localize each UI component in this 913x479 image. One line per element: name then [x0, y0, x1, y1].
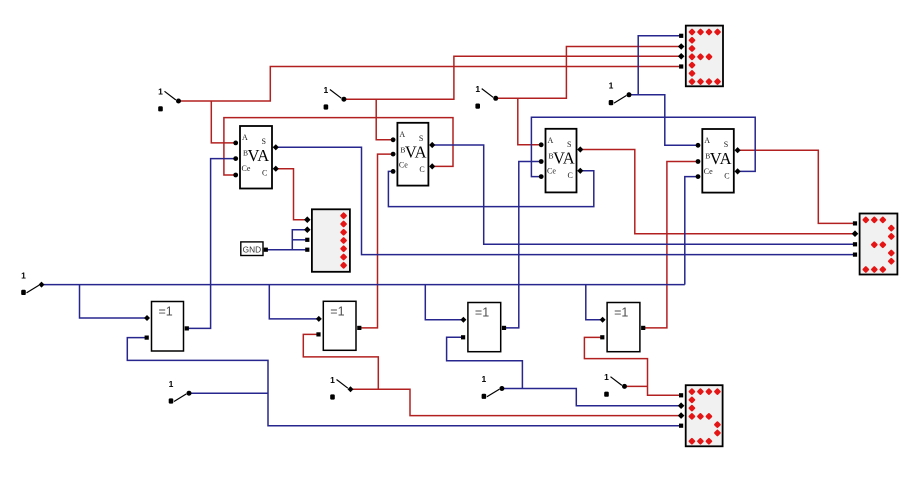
VA4 pin B: [696, 159, 701, 164]
D4 pin 1: [304, 216, 311, 223]
svg-text:1: 1: [330, 375, 335, 385]
ground symbol GND: [241, 242, 263, 256]
wire branch: SUB bus to VA4 carry-in Ce: [685, 177, 698, 285]
wire branch: GND to display D4 pin 2: [292, 230, 307, 250]
full adder VA2: [397, 123, 428, 186]
VA3 pin A: [539, 142, 544, 147]
D3 pin 1: [679, 393, 683, 397]
D2 pin 3: [853, 242, 857, 246]
wire net A3: switch S1 to display D1 pin 4: [179, 67, 682, 102]
svg-text:=1: =1: [475, 306, 489, 320]
wire net B2: switch S7 to display D3 pin 3: [351, 389, 682, 415]
GND pin: [264, 248, 268, 252]
VA1 pin S: [273, 144, 279, 150]
toggle switch S2 (set to 1): [324, 85, 347, 110]
D4 pin 3: [305, 238, 309, 242]
wire net S0sum: VA4 sum output to display D2 pin 1: [737, 150, 856, 223]
wire net B0: XOR X4 input 2 to display D3 pin 1: [584, 337, 681, 395]
wire branch: SUB bus to XOR X4 input 1: [586, 285, 603, 320]
svg-text:1: 1: [158, 87, 163, 97]
D2 pin 1: [853, 221, 857, 225]
X1 input 1: [144, 315, 150, 321]
svg-text:1: 1: [609, 81, 614, 91]
wire net B2: XOR X2 input 2 feed: [303, 334, 378, 389]
svg-text:C: C: [724, 171, 729, 180]
wire net carry-out: VA1 carry C to display D4 pin 1: [276, 169, 308, 220]
X1 input 2: [145, 336, 149, 340]
X4 input 2: [600, 335, 604, 339]
VA1 pin A: [233, 141, 238, 146]
wire net A0: switch S4 to display D1 pin 1: [629, 36, 681, 95]
X2 output: [357, 326, 361, 330]
svg-text:=1: =1: [330, 304, 344, 318]
wire: XOR X4 output to VA4 input B: [644, 162, 698, 328]
toggle switch S5 (set to 0): [21, 270, 44, 295]
D1 pin 1: [679, 34, 683, 38]
wire stub: switch S9 to net B0: [625, 385, 648, 387]
VA1 pin B: [233, 156, 238, 161]
wire net A2: switch S2 to display D1 pin 3: [344, 56, 682, 99]
wire net B1: switch S8 to display D3 pin 2: [502, 389, 682, 406]
svg-text:Ce: Ce: [704, 167, 713, 176]
svg-text:S: S: [724, 140, 728, 149]
X4 input 1: [600, 317, 606, 323]
svg-text:A: A: [242, 133, 248, 142]
wire net: VA3 carry C to VA2 carry-in Ce: [388, 171, 593, 207]
wire net SUB bus: switch S5 mode line: [42, 284, 685, 286]
toggle switch S9 (set to 1): [604, 372, 627, 397]
VA3 pin Ce: [539, 174, 544, 179]
wire: XOR X2 output to VA2 input B: [359, 154, 393, 328]
D3 pin 3: [678, 412, 685, 419]
dot-matrix display D2 (shows 3): [860, 214, 898, 275]
D4 pin 4: [305, 248, 309, 252]
svg-text:1: 1: [475, 84, 480, 94]
svg-text:C: C: [419, 165, 424, 174]
wire branch: SUB bus to XOR X3 input 1: [425, 285, 464, 320]
VA4 pin Ce: [696, 174, 701, 179]
XOR gate X4 (=1): [607, 303, 640, 352]
VA3 pin C: [577, 168, 583, 174]
full adder VA1: [240, 126, 272, 189]
dot-matrix display D4 (shows 1 (carry)): [312, 209, 350, 271]
svg-text:S: S: [419, 134, 423, 143]
svg-text:Ce: Ce: [547, 167, 556, 176]
D2 pin 2: [852, 230, 859, 237]
svg-text:VA: VA: [248, 146, 270, 165]
X1 output: [185, 326, 189, 330]
VA4 pin A: [696, 143, 701, 148]
XOR gate X2 (=1): [323, 301, 356, 350]
svg-text:=1: =1: [159, 305, 173, 319]
D2 pin 4: [853, 253, 857, 257]
wire net: VA2 carry C to VA1 carry-in Ce: [224, 118, 453, 175]
VA2 pin Ce: [391, 169, 396, 174]
D3 pin 2: [678, 402, 685, 409]
wire net B3: XOR X1 input 2 to display D3 pin 4: [127, 338, 681, 426]
svg-text:=1: =1: [614, 306, 628, 320]
X3 input 1: [460, 317, 466, 323]
toggle switch S3 (set to 1): [475, 84, 498, 109]
X3 input 2: [461, 335, 465, 339]
X4 output: [641, 326, 645, 330]
wire net sum3: VA1 sum output to display D2 pin 4: [276, 147, 856, 254]
svg-text:Ce: Ce: [399, 161, 408, 170]
wire net: VA4 carry C to VA3 carry-in Ce: [531, 117, 755, 176]
svg-text:1: 1: [21, 270, 26, 280]
XOR gate X1 (=1): [152, 302, 184, 352]
svg-text:1: 1: [169, 379, 174, 389]
VA2 pin S: [429, 142, 435, 148]
svg-text:C: C: [262, 168, 267, 177]
toggle switch S4 (set to 0): [609, 81, 632, 106]
svg-text:Ce: Ce: [242, 164, 251, 173]
svg-text:1: 1: [604, 372, 609, 382]
D1 pin 3: [678, 53, 685, 60]
full adder VA4: [702, 129, 734, 193]
D3 pin 4: [679, 424, 683, 428]
svg-text:A: A: [704, 136, 710, 145]
wire branch: GND to display D4 pin 3: [292, 239, 307, 241]
VA4 pin C: [735, 168, 741, 174]
X2 input 1: [316, 316, 322, 322]
VA3 pin B: [539, 159, 544, 164]
wire: XOR X3 output to VA3 input B: [505, 162, 542, 328]
VA3 pin S: [577, 146, 583, 152]
toggle switch S8 (set to 0): [482, 374, 505, 399]
svg-text:VA: VA: [405, 143, 427, 162]
wire net sum2: VA2 sum output to display D2 pin 3: [433, 145, 856, 244]
wire net S1sum: VA3 sum output to display D2 pin 2: [581, 150, 856, 234]
wire branch: switch S1 to VA1 input A: [211, 101, 235, 143]
svg-text:A: A: [399, 130, 405, 139]
svg-text:VA: VA: [553, 149, 575, 168]
D4 pin 2: [304, 226, 311, 233]
VA2 pin A: [391, 137, 396, 142]
svg-text:GND: GND: [243, 244, 261, 254]
wire branch: switch S3 to VA3 input A: [518, 98, 542, 145]
wire branch: SUB bus to XOR X1 input 1: [80, 285, 147, 318]
svg-text:1: 1: [324, 85, 329, 95]
wire: GND to display D4 pin 4: [266, 249, 308, 251]
wire: XOR X1 output to VA1 input B: [186, 159, 235, 329]
dot-matrix display D1 (shows hex E): [686, 26, 723, 87]
wire branch: switch S4 to VA4 input A: [638, 95, 698, 146]
dot-matrix display D3 (shows 5): [686, 385, 723, 446]
X3 output: [502, 326, 506, 330]
VA2 pin C: [429, 163, 435, 169]
VA1 pin C: [273, 166, 279, 172]
VA1 pin Ce: [233, 173, 238, 178]
wire stub: switch S6 to net B3: [189, 392, 268, 394]
toggle switch S1 (set to 1): [158, 87, 181, 112]
D1 pin 4: [679, 64, 683, 68]
X2 input 2: [316, 332, 320, 336]
XOR gate X3 (=1): [468, 303, 501, 352]
toggle switch S6 (set to 0): [169, 379, 192, 404]
svg-text:VA: VA: [710, 149, 732, 168]
wire net B1: XOR X3 input 2 feed: [447, 337, 523, 388]
svg-text:S: S: [567, 140, 571, 149]
D1 pin 2: [678, 43, 685, 50]
VA4 pin S: [735, 147, 741, 153]
wire branch: switch S2 to VA2 input A: [376, 99, 393, 140]
wire net A1: switch S3 to display D1 pin 2: [496, 47, 682, 99]
wire branch: SUB bus to XOR X2 input 1: [269, 285, 319, 319]
full adder VA3: [546, 129, 577, 193]
toggle switch S7 (set to 1): [330, 375, 353, 400]
svg-text:1: 1: [482, 374, 487, 384]
svg-text:C: C: [568, 171, 573, 180]
svg-text:A: A: [548, 136, 554, 145]
svg-text:S: S: [262, 137, 266, 146]
VA2 pin B: [391, 152, 396, 157]
